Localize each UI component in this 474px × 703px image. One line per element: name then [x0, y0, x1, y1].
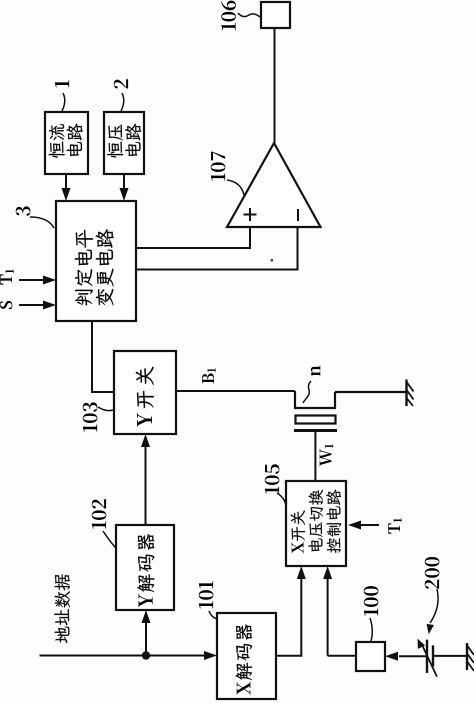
- floating gate: [296, 416, 336, 424]
- ground top right: [407, 380, 414, 407]
- label 100: [364, 586, 379, 616]
- box 100: [356, 642, 385, 671]
- label n: [311, 366, 320, 377]
- memory cell n transistor: [294, 391, 407, 408]
- scan speck: [271, 259, 274, 262]
- leader 3: [30, 217, 54, 228]
- label 1: [55, 80, 69, 87]
- label B1: [202, 368, 215, 383]
- box 101 X-decoder: [217, 613, 276, 699]
- leader 103: [98, 407, 113, 411]
- leader 102: [103, 531, 116, 548]
- text Y解码器: [137, 534, 154, 607]
- arrow T1 into box105: [348, 521, 379, 530]
- wire cap to box100: [385, 652, 427, 661]
- wire 106 to op-amp: [274, 28, 276, 144]
- wire op-amp minus input: [137, 227, 298, 270]
- label S input: [0, 301, 12, 309]
- wire branch to box100: [328, 655, 356, 657]
- text 判定电平变更电路: [75, 229, 114, 306]
- wire bit line B1: [176, 390, 295, 392]
- text X解码器: [235, 624, 252, 694]
- arrow box2 to box3: [120, 174, 129, 201]
- leader 2: [121, 93, 124, 111]
- text Y开关: [136, 367, 154, 427]
- wire word line W1: [314, 432, 316, 481]
- leader 105: [277, 493, 286, 506]
- label 102: [92, 499, 107, 528]
- label T1 into 105: [388, 518, 401, 533]
- leader 200: [425, 589, 438, 635]
- junction dot: [142, 651, 150, 659]
- label 106: [221, 1, 236, 31]
- label 105: [265, 464, 280, 493]
- label 3: [16, 206, 31, 215]
- arrow junction to Y-decoder: [142, 610, 151, 656]
- text 恒流电路: [49, 124, 83, 158]
- label T1 input: [0, 269, 13, 284]
- wire 100-branch to 105: [323, 566, 332, 656]
- label 101: [199, 581, 214, 608]
- arrow box1 to box3: [62, 174, 71, 201]
- arrow 102 to 103: [141, 434, 150, 525]
- ground bottom right: [467, 643, 474, 671]
- leader 101: [209, 611, 217, 619]
- box 1 const-current: [45, 112, 88, 174]
- label W1: [320, 444, 333, 466]
- leader 1: [62, 93, 65, 111]
- box 102 Y-decoder: [116, 525, 174, 610]
- leader 100: [370, 618, 372, 641]
- box 3 level-change: [56, 201, 136, 321]
- control gate: [294, 429, 337, 432]
- wire op-amp plus input: [137, 227, 250, 248]
- box 2 const-voltage: [104, 112, 144, 174]
- text 恒压电路: [107, 124, 141, 158]
- arrow T1 into box3: [19, 276, 56, 285]
- address bus wire: [40, 651, 218, 660]
- label 2: [114, 79, 128, 88]
- label 103: [83, 402, 98, 431]
- text X开关电压切换控制电路: [291, 490, 342, 554]
- wire 101 to 105: [276, 566, 306, 656]
- op-amp 107: [227, 143, 321, 227]
- arrow S into box3: [19, 301, 56, 310]
- label 200: [425, 557, 440, 589]
- text 地址数据: [54, 574, 70, 643]
- leader 107: [227, 180, 244, 195]
- box 106: [261, 2, 290, 28]
- box 103 Y-switch: [114, 351, 176, 434]
- leader 106: [238, 13, 260, 17]
- box 105 X-switch control: [286, 481, 346, 566]
- variable capacitor 200: [414, 637, 466, 677]
- leader n: [303, 381, 311, 403]
- wire box3 to Y-switch: [92, 321, 114, 392]
- label 107: [211, 152, 226, 181]
